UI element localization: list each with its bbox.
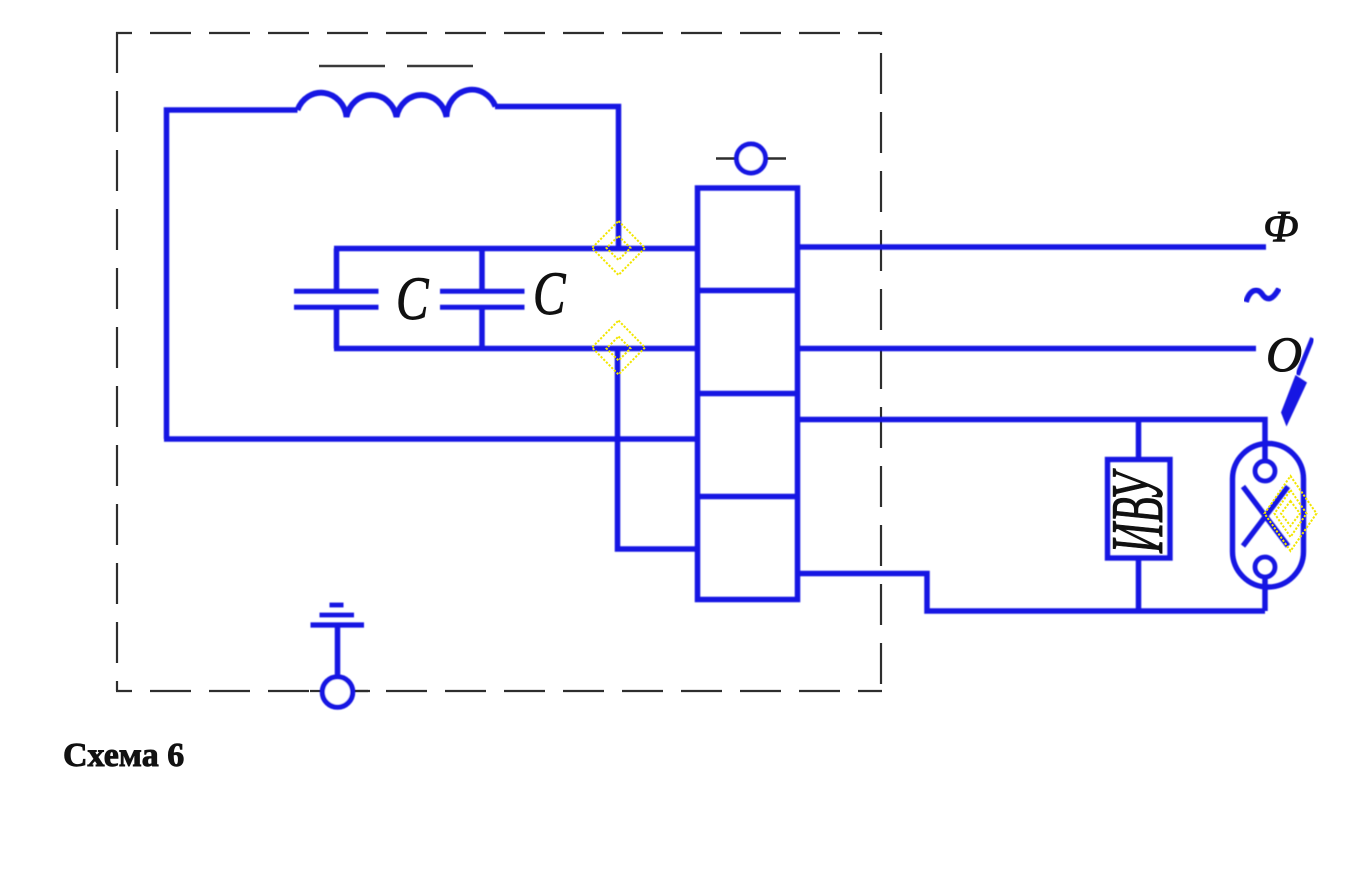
svg-text:C: C (396, 265, 429, 333)
svg-text:Ф: Ф (1263, 202, 1298, 251)
svg-text:Схема 6: Схема 6 (63, 737, 184, 774)
svg-text:ИВУ: ИВУ (1097, 468, 1179, 554)
svg-text:О: О (1266, 326, 1302, 382)
svg-text:C: C (533, 260, 566, 328)
